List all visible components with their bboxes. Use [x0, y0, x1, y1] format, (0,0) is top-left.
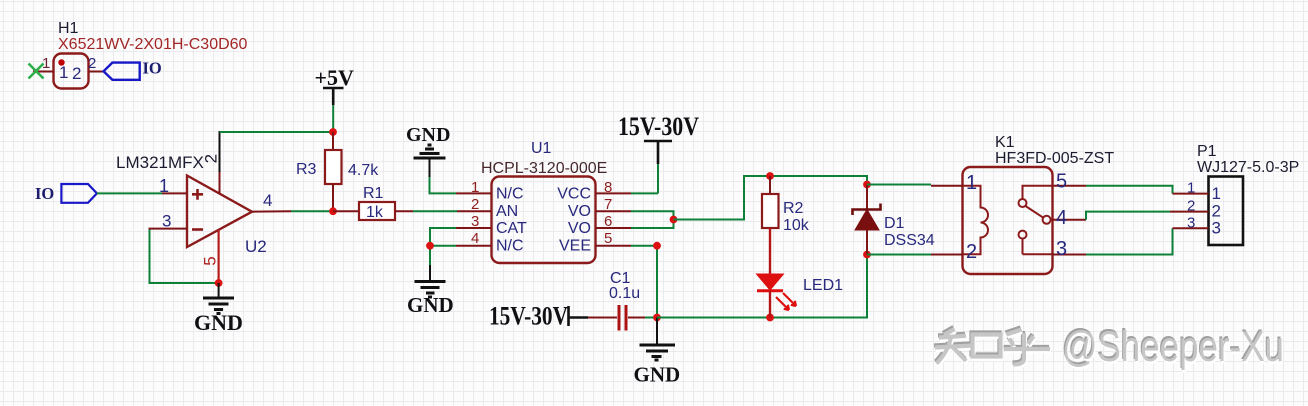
wire U1 pin8 to 15V-30V [631, 192, 658, 194]
svg-text:2: 2 [202, 154, 221, 163]
connector H1 [54, 20, 248, 89]
U1 pin 8 [596, 179, 632, 196]
svg-text:N/C: N/C [496, 238, 524, 255]
U2 pin 3 [149, 212, 188, 231]
junction D1 bottom [863, 251, 871, 259]
svg-text:7: 7 [604, 196, 612, 213]
svg-text:VO: VO [568, 203, 591, 220]
optocoupler U1 [481, 140, 607, 263]
svg-text:1: 1 [1212, 184, 1221, 203]
no-connect flag on H1 pin 1 [29, 64, 44, 79]
U1 pin 2 [457, 196, 492, 213]
power flag +5V [315, 65, 355, 132]
svg-text:3: 3 [162, 212, 171, 231]
wire IO to U2 pin 1 [97, 192, 162, 194]
svg-text:U2: U2 [245, 237, 267, 256]
junction D1 top [863, 181, 871, 189]
watermark Zhihu @Sheeper-Xu [934, 321, 1285, 374]
K1 pin 3 [1053, 238, 1087, 260]
svg-text:IO: IO [143, 59, 162, 78]
junction node R3 bottom [329, 207, 337, 215]
svg-text:VO: VO [568, 220, 591, 237]
K1 pin 1 [931, 172, 977, 194]
svg-text:+5V: +5V [315, 65, 355, 90]
svg-text:AN: AN [496, 203, 518, 220]
svg-text:4: 4 [1056, 207, 1067, 229]
svg-text:U1: U1 [531, 140, 552, 157]
svg-text:WJ127-5.0-3P: WJ127-5.0-3P [1197, 159, 1299, 176]
svg-text:R2: R2 [783, 200, 804, 217]
svg-text:1: 1 [159, 176, 169, 196]
H1 pin 1 [33, 55, 54, 72]
resistor R2 [762, 176, 810, 274]
junction C1/GND node [653, 314, 661, 322]
wire pin2 to +5V node [220, 131, 334, 133]
svg-text:2: 2 [471, 196, 479, 213]
svg-text:LM321MFX: LM321MFX [116, 153, 204, 172]
svg-text:1: 1 [59, 63, 68, 82]
svg-text:VCC: VCC [557, 186, 591, 203]
svg-text:5: 5 [201, 256, 220, 265]
wire K1 pin5 to P1 pin1 [1086, 186, 1173, 194]
svg-text:2: 2 [966, 241, 977, 263]
svg-text:R1: R1 [363, 185, 384, 202]
connector P1 [1197, 143, 1299, 245]
svg-text:15V-30V: 15V-30V [618, 112, 699, 141]
diode D1 (schottky) [853, 185, 935, 255]
U2 pin 5 (V-) [201, 230, 220, 283]
capacitor C1 [588, 270, 645, 331]
K1 pin 4 [1053, 207, 1087, 229]
H1 pin 2 [88, 55, 104, 72]
wire R1 to U1 pin 2 [413, 210, 457, 212]
svg-text:VEE: VEE [559, 238, 591, 255]
wire K1 pin4 to P1 pin2 [1086, 212, 1170, 220]
U2 pin 2 (V+) [202, 154, 221, 194]
svg-text:IO: IO [35, 184, 54, 203]
svg-text:GND: GND [194, 310, 243, 335]
U1 pin 1 [456, 179, 492, 196]
svg-text:1k: 1k [366, 204, 384, 221]
K1 coil [963, 186, 989, 255]
wire D1 bottom to K1 pin 2 [867, 254, 931, 256]
svg-text:LED1: LED1 [803, 277, 843, 294]
svg-text:K1: K1 [995, 134, 1015, 151]
power flag 15V-30V (bottom) [489, 302, 588, 331]
junction at U1 pin4 net [426, 242, 434, 250]
svg-text:1: 1 [471, 179, 479, 196]
svg-text:4: 4 [471, 230, 479, 247]
resistor R1 [333, 185, 413, 221]
U1 pin 3 [456, 213, 492, 230]
svg-text:2: 2 [72, 64, 81, 83]
svg-text:5: 5 [1056, 171, 1067, 193]
junction at U2 pin5 [215, 279, 223, 287]
wire VO node to R2/D1/K1 rail [674, 176, 868, 220]
svg-text:HF3FD-005-ZST: HF3FD-005-ZST [995, 150, 1114, 167]
U1 pin 6 [596, 213, 632, 230]
svg-text:4.7k: 4.7k [348, 162, 379, 179]
resistor R3 [296, 132, 379, 211]
U1 pin 7 [596, 196, 632, 213]
relay K1 [963, 134, 1115, 274]
svg-text:3: 3 [1212, 219, 1221, 238]
K1 pin 5 [1053, 171, 1087, 193]
ground (top, at U1 pin 1) [406, 124, 450, 177]
U2 pin 1 [159, 176, 187, 196]
U2 pin 4 (output) [252, 191, 291, 212]
svg-text:3: 3 [1187, 215, 1195, 232]
svg-text:N/C: N/C [496, 186, 524, 203]
P1 pin 3 [1173, 215, 1221, 238]
svg-text:1: 1 [966, 172, 977, 194]
junction VO node [670, 216, 678, 224]
wire bottom rail (C1 node to LED and D1) [657, 255, 867, 318]
wire U1 VEE to C1 node [631, 246, 657, 318]
wire U2 feedback (pin3 to pin5 node) [150, 230, 219, 284]
svg-text:2: 2 [1187, 198, 1195, 215]
port IO (op-amp input) [35, 184, 97, 203]
U1 pin 5 [596, 230, 632, 247]
junction VEE node [653, 242, 661, 250]
svg-text:3: 3 [471, 213, 479, 230]
wire U2 pin2 up (black segment) [219, 131, 221, 172]
LED LED1 [757, 274, 844, 318]
svg-text:0.1u: 0.1u [609, 285, 640, 302]
junction R2 top [766, 172, 774, 180]
port IO (top, at H1 pin 2) [104, 59, 162, 80]
P1 pin 1 [1173, 180, 1221, 204]
svg-text:HCPL-3120-000E: HCPL-3120-000E [481, 160, 607, 177]
svg-text:8: 8 [604, 179, 612, 196]
wire K1 pin3 to P1 pin3 [1086, 228, 1173, 254]
wire U1 pin3 / pin4 to ground [430, 228, 456, 265]
junction LED bottom [766, 314, 774, 322]
svg-text:P1: P1 [1197, 143, 1217, 160]
junction node +5V / R3 top [329, 128, 337, 136]
svg-text:3: 3 [1056, 238, 1067, 260]
svg-text:6: 6 [604, 213, 612, 230]
svg-text:GND: GND [406, 124, 450, 146]
U1 pin 4 [456, 230, 492, 247]
wire C1 to GND node [645, 317, 657, 319]
svg-text:X6521WV-2X01H-C30D60: X6521WV-2X01H-C30D60 [58, 36, 248, 53]
svg-text:10k: 10k [783, 217, 810, 234]
K1 pin 2 [931, 241, 977, 263]
ground (middle, at C1) [634, 318, 681, 387]
wire U2 out to R3 node [291, 210, 333, 212]
P1 pin 2 [1170, 198, 1221, 221]
wire GND to U1 pin 1 [430, 177, 457, 193]
svg-text:GND: GND [407, 293, 454, 317]
ground (below U1 pins 3-4) [407, 265, 454, 317]
svg-text:4: 4 [263, 191, 272, 210]
svg-text:2: 2 [88, 55, 96, 72]
svg-text:D1: D1 [884, 215, 905, 232]
svg-text:1: 1 [1187, 180, 1195, 197]
svg-text:5: 5 [604, 230, 612, 247]
svg-text:R3: R3 [296, 161, 317, 178]
K1 contacts [1019, 186, 1053, 255]
ground at U2 [194, 283, 243, 335]
wire D1 top to K1 pin 1 [867, 184, 931, 186]
svg-text:GND: GND [634, 363, 681, 387]
svg-text:DSS34: DSS34 [884, 232, 935, 249]
svg-text:CAT: CAT [496, 220, 527, 237]
svg-text:15V-30V: 15V-30V [489, 302, 568, 331]
op-amp U2 [116, 153, 267, 256]
wire U1 VO pins join [631, 211, 674, 228]
power flag 15V-30V (top) [618, 112, 699, 193]
svg-text:H1: H1 [58, 20, 79, 37]
